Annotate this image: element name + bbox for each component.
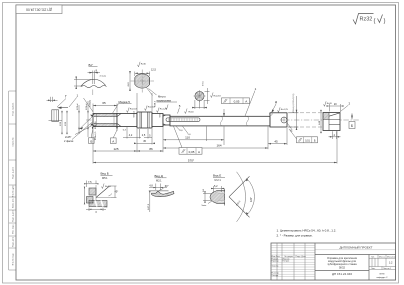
svg-text:Т.контр.: Т.контр. xyxy=(272,266,280,268)
vertical dim F43 xyxy=(129,71,131,91)
title block outline xyxy=(271,243,396,280)
shaft segment 2 x117-137 xyxy=(117,114,137,127)
label D with leader to corner radius xyxy=(272,100,277,112)
svg-text:Место: Место xyxy=(158,94,166,98)
shaft segment 7 x270-287 xyxy=(270,113,287,127)
roughness above segment 7 xyxy=(278,107,289,112)
svg-text:0,05: 0,05 xyxy=(234,100,240,104)
title block left grid texts xyxy=(272,255,307,277)
left vertical dim of dome xyxy=(74,77,91,90)
dim 8 with slots note xyxy=(88,71,101,85)
dim 5.2 top xyxy=(211,186,224,192)
technical requirement notes xyxy=(277,228,337,237)
svg-text:120°: 120° xyxy=(250,197,253,202)
svg-text:Подп. и дата: Подп. и дата xyxy=(13,166,15,179)
right end piece x323-340 xyxy=(323,113,340,131)
svg-text:2х45°: 2х45° xyxy=(65,136,71,139)
svg-text:Лит.: Лит. xyxy=(371,257,375,259)
title block lit/massa/masshtab xyxy=(369,255,396,270)
keyway slot on slender part xyxy=(166,118,200,121)
svg-text:Ra2,5: Ra2,5 xyxy=(105,186,112,188)
svg-text:Провер.: Провер. xyxy=(272,261,280,263)
left end partial view xyxy=(49,110,63,122)
svg-text:60°: 60° xyxy=(165,185,169,188)
dim 45 row right xyxy=(268,143,287,145)
chamfer diagonal xyxy=(96,186,110,198)
ghost continuation dashes to right end xyxy=(288,113,323,127)
svg-text:Инв. подл.: Инв. подл. xyxy=(13,224,15,234)
svg-text:кафедра С: кафедра С xyxy=(376,276,388,279)
center hole bullet profile xyxy=(210,191,225,204)
svg-text:Rz32: Rz32 xyxy=(360,17,373,23)
left margin rotated labels xyxy=(12,102,15,265)
svg-text:ДП 151.001.24.06: ДП 151.001.24.06 xyxy=(26,8,52,12)
svg-text:Ra0,63: Ra0,63 xyxy=(130,109,138,111)
svg-text:Подп. и дата: Подп. и дата xyxy=(13,209,15,222)
svg-text:ДИПЛОМНЫЙ ПРОЕКТ: ДИПЛОМНЫЙ ПРОЕКТ xyxy=(340,245,373,249)
svg-text:): ) xyxy=(384,19,386,25)
svg-text:Ф50к6(+0,032+0,011): Ф50к6(+0,032+0,011) xyxy=(292,93,295,113)
roughness above right piece xyxy=(324,101,333,106)
svg-text:В-Г: В-Г xyxy=(89,63,94,67)
svg-text:65: 65 xyxy=(102,101,106,105)
svg-text:4 паза: 4 паза xyxy=(100,76,107,78)
dim 4 below right piece xyxy=(329,131,341,139)
small section circle mid xyxy=(192,81,221,109)
break squiggle 1 xyxy=(221,116,223,126)
svg-text:Ra0,63: Ra0,63 xyxy=(214,96,222,98)
shaft segment 4 x152-163 xyxy=(152,114,163,127)
extension lines from section down to shaft xyxy=(137,93,152,111)
shaft centerline xyxy=(86,119,360,121)
svg-text:Взам. инв.: Взам. инв. xyxy=(13,198,15,208)
svg-text:Е: Е xyxy=(291,129,293,133)
dim 4.8 xyxy=(149,184,167,191)
svg-text:Листов 1: Листов 1 xyxy=(383,268,392,270)
svg-text:164: 164 xyxy=(216,144,221,148)
svg-text:Ra0,63: Ra0,63 xyxy=(148,107,156,109)
svg-text:125: 125 xyxy=(113,147,118,151)
dim 65 above segment 1 xyxy=(93,104,117,113)
dim 7.5 top left xyxy=(84,181,99,188)
dome with wavy bottom xyxy=(81,79,106,86)
tolerance frame 0.05 A top xyxy=(222,98,250,104)
roughness checks above segments xyxy=(127,105,169,113)
svg-text:Подп. дата: Подп. дата xyxy=(13,236,15,247)
svg-text:М2:1: М2:1 xyxy=(156,180,162,183)
title block doc number xyxy=(315,270,369,272)
svg-text:А: А xyxy=(198,150,200,154)
svg-text:0,05: 0,05 xyxy=(189,150,195,154)
datum flag B below left xyxy=(89,127,95,143)
svg-text:2,5: 2,5 xyxy=(142,134,146,137)
dim 45 row left xyxy=(134,143,155,145)
svg-text:45: 45 xyxy=(274,139,278,143)
svg-text:(: ( xyxy=(374,19,376,25)
svg-text:1. Цементировать HRCэ 54...60,: 1. Цементировать HRCэ 54...60, h 0.8...1… xyxy=(277,228,337,232)
title block name cell xyxy=(368,255,370,281)
svg-text:5К32: 5К32 xyxy=(339,265,346,269)
tolerance frame 0.05 A bottom xyxy=(174,126,203,154)
groove profile xyxy=(149,190,169,192)
svg-text:Вид Д: Вид Д xyxy=(155,174,163,178)
svg-text:Инв. № дубл.: Инв. № дубл. xyxy=(12,184,15,197)
dim 110 row xyxy=(163,139,224,141)
general roughness mark top right xyxy=(353,14,386,25)
svg-text:Ra1,25: Ra1,25 xyxy=(160,109,168,111)
svg-text:Масштаб: Масштаб xyxy=(387,257,396,259)
svg-text:Rz40: Rz40 xyxy=(189,111,195,113)
svg-text:5min: 5min xyxy=(202,205,208,207)
label E with leader xyxy=(288,124,293,133)
vertical dims left of shaft xyxy=(61,101,88,137)
svg-text:А: А xyxy=(245,100,247,104)
svg-text:110: 110 xyxy=(185,135,190,139)
svg-text:Марка 5: Марка 5 xyxy=(119,100,131,104)
title block doc line xyxy=(315,254,396,256)
roughness xyxy=(102,184,105,189)
label 2 with leader to right piece xyxy=(340,102,351,112)
cross hole on segment 7 xyxy=(280,116,288,124)
svg-text:Ra1,25: Ra1,25 xyxy=(281,109,289,111)
svg-text:ДП 151.24.046: ДП 151.24.046 xyxy=(332,272,352,276)
vertical rotated dim F47.8 xyxy=(149,191,150,212)
svg-text:Утверд.: Утверд. xyxy=(272,275,280,277)
svg-text:4,8: 4,8 xyxy=(149,185,153,188)
break squiggle 2 xyxy=(247,116,249,126)
leader to Rz40 xyxy=(147,88,153,96)
view arrow B at right xyxy=(349,114,355,129)
svg-text:570*: 570* xyxy=(188,159,195,163)
rotated dim F48 at right piece xyxy=(318,110,322,133)
bottom dim 3 xyxy=(86,208,106,212)
svg-text:ИТМ: ИТМ xyxy=(380,274,385,276)
svg-text:М24х1,5: М24х1,5 xyxy=(95,131,97,140)
svg-text:0,01: 0,01 xyxy=(305,140,310,143)
small dim above left end view xyxy=(47,97,58,102)
overall dim 570 xyxy=(93,162,337,164)
hatched corner blocks xyxy=(89,188,96,195)
svg-text:Инв. № подл.: Инв. № подл. xyxy=(12,252,15,265)
leader Марка 5 xyxy=(113,100,132,114)
svg-text:Б: Б xyxy=(90,139,92,143)
shaft segment 1 threaded/knurled x93-117 xyxy=(93,114,117,127)
svg-text:Rz20: Rz20 xyxy=(327,103,333,105)
svg-text:Ф7,5: Ф7,5 xyxy=(201,81,204,86)
svg-text:2. * - Размер для справок.: 2. * - Размер для справок. xyxy=(277,234,313,238)
svg-text:Ф47,8: Ф47,8 xyxy=(147,203,150,210)
position label 1 xyxy=(245,87,257,116)
tolerance frame 0.01 B bottom right xyxy=(289,129,318,143)
svg-text:5,2: 5,2 xyxy=(214,185,218,188)
svg-text:Rz40: Rz40 xyxy=(141,63,147,65)
dim 12.5 over section xyxy=(135,72,150,77)
svg-text:Д: Д xyxy=(275,100,277,104)
chamfer leaders 1.6 xyxy=(176,126,180,130)
svg-text:86: 86 xyxy=(149,147,153,151)
top-left document number stamp xyxy=(16,5,62,14)
svg-text:2 фаски: 2 фаски xyxy=(64,140,74,143)
left vertical dim xyxy=(84,187,85,205)
svg-text:Ф60об: Ф60об xyxy=(132,110,135,117)
svg-text:Перв. примен.: Перв. примен. xyxy=(13,102,15,116)
title block left grid rows xyxy=(271,245,315,276)
svg-text:Петров: Петров xyxy=(283,261,290,263)
svg-text:1:2: 1:2 xyxy=(389,262,393,265)
dim 20 above right piece xyxy=(327,104,344,111)
svg-text:Масса: Масса xyxy=(379,257,386,259)
svg-text:Справ. №: Справ. № xyxy=(12,137,15,147)
chain dim 125 86 164 xyxy=(93,147,268,152)
vertical dim F50k6 right xyxy=(289,93,299,130)
extension lines below shaft xyxy=(93,109,337,164)
svg-text:М24-7Н: М24-7Н xyxy=(95,121,97,129)
svg-text:Г: Г xyxy=(65,95,67,99)
left filing margin column xyxy=(9,91,16,270)
view direction arrow G xyxy=(57,94,79,109)
angle fan 120 deg xyxy=(229,176,250,197)
centerline below dome xyxy=(92,90,94,97)
shaft segment 3 collar x137-152 with grooves xyxy=(137,112,152,128)
svg-text:М 2:1: М 2:1 xyxy=(215,179,222,182)
svg-text:Вид Е: Вид Е xyxy=(213,174,221,178)
small dims row y137 xyxy=(123,136,152,138)
marking place note xyxy=(149,89,178,103)
roughness above section circle xyxy=(138,62,147,67)
svg-text:М5:1: М5:1 xyxy=(102,177,108,180)
datum flag A below xyxy=(111,127,118,144)
svg-text:4,2: 4,2 xyxy=(129,134,133,137)
roughness Rz40 under marking xyxy=(185,109,195,114)
svg-text:Лист: Лист xyxy=(371,268,375,270)
svg-text:Ф26об: Ф26об xyxy=(76,103,79,110)
shaft segment 5 transition x163-170 xyxy=(163,115,170,125)
svg-text:А: А xyxy=(112,139,114,143)
svg-text:Вид Б: Вид Б xyxy=(101,172,109,176)
shaft segment 6 long slender x170-270 xyxy=(170,116,270,126)
left vertical dim F4 xyxy=(203,191,211,203)
right small dim xyxy=(110,186,117,198)
svg-text:12,5: 12,5 xyxy=(151,68,156,71)
leader 5 to slender xyxy=(178,104,181,114)
svg-text:7,5: 7,5 xyxy=(88,181,92,184)
chamfer note 2x45 xyxy=(64,98,94,143)
svg-text:Подп. Дата: Подп. Дата xyxy=(296,256,307,258)
title block left grid verticals xyxy=(277,243,315,280)
corner radius circle on segment 7 xyxy=(269,113,272,116)
